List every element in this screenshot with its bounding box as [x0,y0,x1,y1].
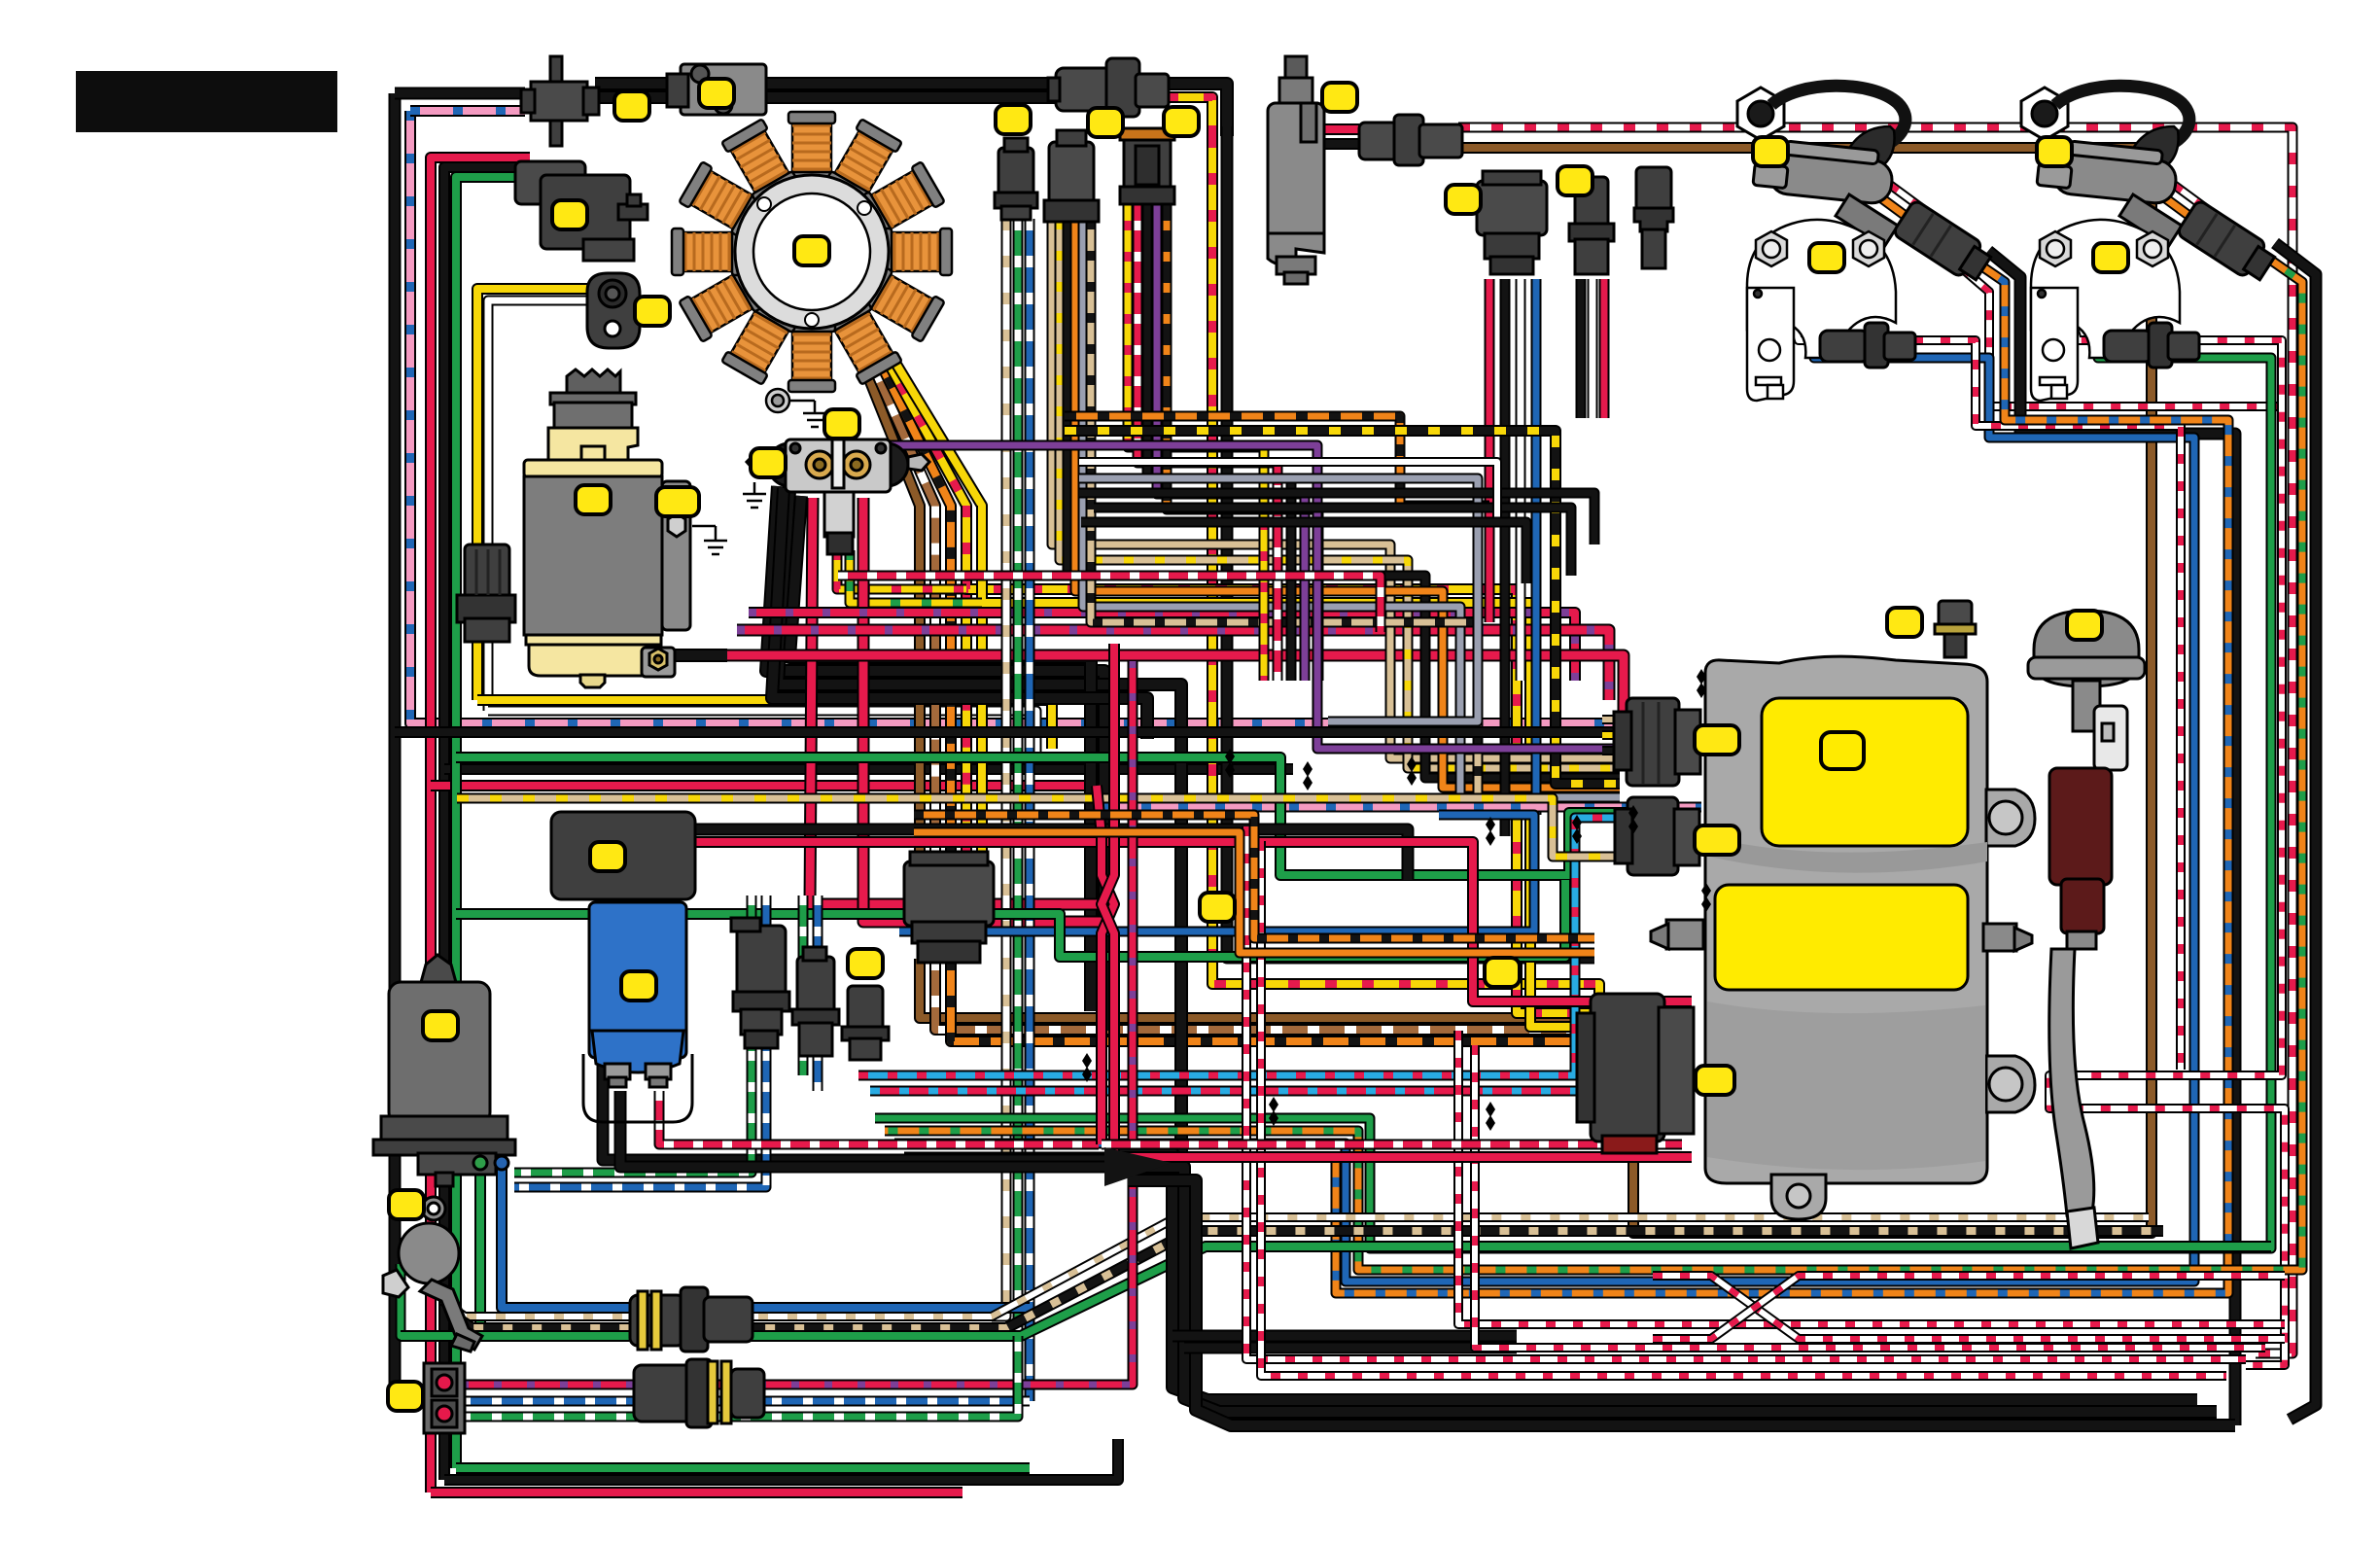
wire stator lead 1 to ECU [920,959,1594,1018]
wire black solenoid 1 [766,486,1104,1031]
connector mid-bottom 2 [792,947,839,1056]
wire black left vertical [395,93,418,1388]
callout label 28 [1200,893,1235,922]
stator [672,112,952,392]
callout label starter right [656,487,699,516]
wire green/white vertical [1013,219,1024,1336]
wire green injector2 loop [875,290,2271,1248]
callout label 7 [1088,108,1123,137]
wire red solenoid down 2 [863,498,1114,922]
wire black to connector A [395,88,525,100]
wire pink/blue long [410,111,1653,723]
callout label 22 [621,971,656,1001]
wire white/red vert2+row [1261,841,2226,1376]
wire white/red X cross 1 [1653,1276,2285,1339]
wire group3 5 [1167,190,1318,681]
wire green band lower [456,880,1565,957]
wire black bundle A [1104,1153,2197,1400]
wire red pinch 1 [1097,786,1114,1144]
callout label 24 [848,949,883,978]
wire mid connector lead [1485,279,1495,622]
wire black starter cable [675,649,727,662]
wire black band 522 [1094,508,1571,576]
wire small connector lead [1588,279,1598,418]
wire white/red below coil1 [1962,268,2282,406]
wire black bundle C [1128,1180,2235,1425]
wire black solenoid 4 [772,488,1147,739]
wire white/red row 1362 [1458,1031,2285,1324]
wire tan bundle 5 [1083,220,1620,797]
callout label 12 [824,409,859,439]
wire stator lead 3 [871,344,951,861]
callout label 19 [1887,608,1922,637]
wire red/purple 630 [749,613,1575,681]
wire pink/blue band east [1104,802,1701,813]
wire ecu top lead [1602,715,1627,724]
wire mid connector lead [1500,279,1511,836]
wire red bottom run [431,1487,962,1498]
callout label 5 [635,297,670,326]
ECU connector upper [1614,698,1700,786]
wire blue injector1 loop [894,292,2194,1282]
wire black branch 753 [395,726,1620,738]
wire group3 2 [1137,190,1277,681]
wire tan bundle 6 [1091,220,1620,807]
wire yellow/red solenoid [837,550,966,589]
callout label 11 [1557,166,1592,195]
crank position sensor [587,273,640,348]
wire red to TPS [431,158,530,1492]
wire black/yellow band [1065,431,1620,784]
ECU connector middle [1615,797,1699,875]
wire green branch to ECU [456,757,1629,875]
wire black from relay [694,829,1408,880]
wire green to TPS [456,177,549,1468]
wire stator lead 4 [882,351,966,861]
wire orange coil1 [1876,194,1913,222]
harness convergence arrow [1104,1147,1172,1186]
wire black bundle B [1116,1167,2217,1412]
wire mid connector lead [1516,279,1526,681]
wire yellow/red long vertical [1212,136,1599,1011]
wire white/red coil2 [2174,185,2211,212]
callout label ECU conn 3 [1696,1066,1734,1095]
wire blue/white pair2 [813,895,823,1091]
inline connector fuel pump [1359,115,1462,165]
wire orange coil2 [2160,194,2197,222]
wire stator lead 2 [860,337,935,861]
injector connector 1 [1820,323,1915,368]
wire brown loop [1458,148,2152,1233]
wire group3 3 [1147,190,1291,681]
wire small connector lead [1576,279,1587,418]
ground bolt near solenoid [743,389,826,508]
wire tan bundle 1 [1052,220,1620,758]
wire red/purple bottom [461,661,1133,1385]
wire ltblue/red band [858,818,1627,1075]
wire gray band hairpin [1079,478,1478,721]
wire white/red injector1 [1785,294,2181,1070]
callout label 23 [423,1011,458,1040]
connector B neutral switch [667,64,766,115]
wire black top lower [595,90,1056,104]
fuel pump [1268,56,1324,284]
air temp sensor [1935,601,1976,657]
wire yellow CPS [477,289,587,700]
wire black east 1374 [1172,1330,1517,1343]
starter solenoid [747,439,929,554]
callout label 2 [699,79,734,108]
ignition coil 2 [2021,86,2278,285]
wire black from rectifier [620,1091,1128,1167]
ECU connector lower big [1577,994,1694,1153]
wire red starter cable east [727,655,1624,715]
wire ecu top lead [1602,730,1627,740]
callout label 20 [2067,611,2102,640]
wire black to TPS [444,167,535,1480]
wire red/purple east [737,630,1609,700]
inline connector bottom 1 [630,1287,752,1352]
wire white CPS [488,300,587,711]
injector connector 2 [2104,323,2199,368]
connector mid-bottom 3 [842,986,889,1060]
callout label 13 [751,448,786,477]
2-pin connector with indicators [424,1363,465,1433]
wire ecu top lead [1602,746,1627,755]
wire white/red from pump right edge [1458,127,2292,1353]
callout label 3 [794,236,829,265]
wire red/white band [838,576,1381,632]
wire white/red coil1 [1890,185,1927,212]
wire black fuel pump [1320,138,1361,150]
wire stator lead 3 to ECU [951,959,1594,1041]
callout label 17 [1809,243,1844,272]
callout label 15 [1753,137,1788,166]
wire red/white mid row [1102,1140,1682,1150]
wire black long vertical [1227,126,1594,958]
connector mid large [1477,171,1547,274]
rectifier/regulator [583,902,692,1122]
callout label 26 [389,1190,424,1219]
wire tan bundle 2 [1060,220,1620,768]
callout label 9 [1322,83,1357,112]
wire white band 475 [1079,462,1497,525]
wire black solenoid 2 [778,491,1181,1153]
wire yellow/red trunk [966,506,1594,1013]
callout label 18 [2093,243,2128,272]
connector group1 [995,138,1037,220]
callout label ECU conn 1 [1695,725,1739,755]
wire blue hairpin [899,815,1534,931]
wire red/cyan band [870,1050,1591,1091]
oil level sender [383,1197,482,1352]
wire red branch 808 [431,780,1097,791]
water temp sensor [2028,611,2145,1248]
starter motor [524,369,690,687]
callout label ECU conn 2 [1695,825,1739,855]
callout label 27 [388,1382,423,1411]
callout label 1 [614,91,649,121]
callout label 21 [590,842,625,871]
wire red from relay [694,842,1692,1001]
ground symbol right of starter [692,526,727,554]
wire yellow bottom [477,700,1052,749]
wire green oil sender [401,1264,480,1336]
wire black relay down [603,895,1128,1160]
wire blue/white vertical [1025,219,1035,1401]
wire green/white pair2 [798,895,809,1075]
ECU / EMM module [1651,656,2035,1219]
connector mid-bottom 1 [731,918,789,1048]
wire blue/white pair [514,895,766,1187]
wire orange/black band [1065,416,1489,506]
wire white/red row 1386 [1475,1045,2265,1348]
coil bracket 1 [1747,220,1896,401]
wire green trim [474,1163,486,1336]
wire tan bundle 4 [1075,220,1620,788]
title block [76,71,337,132]
wire purple band [890,445,1614,749]
wire black below coil1 + frame right [1988,251,2235,1425]
wire white/red vert1+row [1246,826,2246,1359]
callout label 25 [1485,958,1520,987]
wire pink to connector A [410,105,525,117]
callout label 8 [1164,107,1199,136]
wire white/red X cross 2 [1653,1276,2285,1339]
connector mid small [1569,177,1614,274]
wire stator lead 1 [850,331,920,861]
callout label 14 [576,485,611,514]
callout label 10 [1446,185,1481,214]
wire white/red injector2 zigzag [2049,292,2285,1365]
wire black after connector [1167,84,1227,136]
wire yellow trunk [982,506,1594,1027]
junction marks [1082,669,1711,1131]
wire stator lead 5 [892,358,982,861]
wire white/tan bottom [442,1217,2149,1317]
connector mid third [1634,167,1673,268]
wire tan bundle 3 [1067,220,1620,778]
wire black east 1386 [1184,1342,1517,1354]
wire orange/green loop [885,253,2302,1270]
wire green/white pair [514,895,752,1173]
wire yellow/green solenoid [850,550,982,603]
wire red/white from rectifier [659,1091,1099,1144]
wire orange/blue loop [904,261,2228,1293]
connector A shift switch [521,56,599,146]
wire blue/white bottom [461,1396,1030,1407]
connector stator bundle [904,852,994,963]
wire small connector lead [1599,279,1610,418]
wire black solenoid 3 [789,496,1091,1011]
throttle position sensor connector [515,161,647,261]
wire black top upper [595,77,1056,90]
callout label 6 [996,105,1031,134]
wire green/white bottom [461,1336,1018,1417]
wire black/tan bottom [449,1231,2163,1328]
wire orange trunk [914,832,1594,953]
wire black bottom run [444,1439,1118,1480]
wire black right edge [2275,243,2316,1420]
connector group3 [1120,128,1174,204]
wire red solenoid down [810,498,1102,904]
inline connector bottom 2 [634,1359,764,1427]
wire blue trim [502,1163,1030,1308]
wire white bottom [488,711,1036,758]
wire mid connector lead [1531,279,1542,815]
wire red fuel pump [1320,123,1361,135]
wire stator lead 2 to ECU [935,959,1594,1030]
callout label 4 [552,200,587,229]
wire group3 4 [1157,190,1305,681]
inline connector top [1048,58,1169,117]
wire yellow/red after connector [1167,97,1212,146]
wire black branch 791 [444,763,1293,775]
wire tan/yellow long [457,798,1620,857]
ignition coil 1 [1737,86,1994,285]
connector below-left of starter [457,544,515,642]
wire group3 1 [1128,190,1264,681]
wire white/tan vertical [992,219,1006,1317]
wire green bottom run [456,1462,1030,1474]
callout label 16 [2037,137,2072,166]
trim motor [373,955,515,1186]
wire green bottom long [401,1247,2271,1336]
coil bracket 2 [2031,220,2180,401]
connector group2 [1044,130,1099,222]
wire red pinch 2 [1102,644,1692,1157]
wire black band 537 [1081,522,1526,583]
wire black band 507 [1079,493,1594,544]
wire orange/black trunk [914,815,1594,938]
relay box [551,812,695,899]
